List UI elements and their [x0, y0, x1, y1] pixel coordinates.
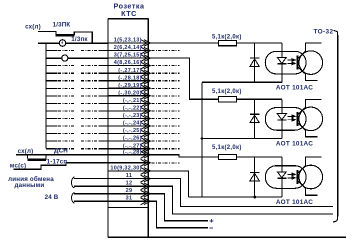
svg-text:1/3ПК: 1/3ПК [53, 22, 71, 29]
optocoupler U3 LED anode lead [281, 157, 283, 172]
wire bottom edge of connector extended (screen/common) [108, 236, 346, 238]
bracket for 24 В [72, 193, 75, 203]
wire row 13 from bus to connector (cable dash-dot) [46, 133, 108, 135]
svg-text:ДСН: ДСН [54, 148, 68, 155]
svg-text:(-,-,22): (-,-,22) [123, 106, 142, 112]
wire row 22 (24V-) L-run [148, 201, 208, 228]
svg-text:КТС: КТС [121, 9, 137, 18]
optocoupler U1 LED cathode lead [281, 64, 283, 83]
phototransistor VT3 circle [299, 165, 323, 189]
wire common return bus vertical [201, 82, 203, 197]
wire pin row 9 inside connector [108, 102, 148, 104]
pin 14 contact chevron [141, 138, 151, 145]
wire stub row 13 right of connector (dash-dot) [152, 133, 180, 135]
optocoupler U1 light arrows [287, 59, 295, 65]
phototransistor VT2 emitter [298, 123, 317, 136]
svg-text:3(7,25,15): 3(7,25,15) [114, 53, 142, 59]
wire feed channel 2 [148, 58, 218, 99]
phototransistor VT1 collector [298, 43, 321, 58]
svg-text:11: 11 [126, 173, 132, 179]
resistor R2 [218, 97, 236, 102]
indicator (lamp) HL2 on row 3 [62, 55, 68, 61]
wire pin row 20 inside connector [108, 185, 148, 187]
wire stub row 4 right of connector (dash-dot) [152, 65, 180, 67]
wire row 14 from bus to connector (cable dash-dot) [46, 140, 108, 142]
wire row 11 from bus to connector (cable dash-dot) [46, 118, 108, 120]
optocoupler U3 LED [277, 172, 286, 178]
svg-text:4(8,26,16): 4(8,26,16) [114, 60, 142, 66]
wire feed channel 1 [148, 42, 218, 44]
resistor R3 [218, 154, 236, 159]
svg-text:мс(с): мс(с) [10, 163, 27, 170]
wire pin row 15 inside connector [108, 148, 148, 150]
wire stub row 12 right of connector (dash-dot) [152, 125, 180, 127]
wire pin row 4 inside connector [108, 65, 148, 67]
wire stub row 14 right of connector (dash-dot) [152, 140, 180, 142]
pin 21 contact chevron [141, 190, 151, 197]
wire stub row 9 right of connector (dash-dot) [152, 102, 180, 104]
svg-text:12: 12 [126, 181, 133, 187]
wire pin row 18 inside connector [108, 170, 148, 172]
connector bottom separator line [108, 207, 148, 209]
wire pin row 2 inside connector [108, 50, 148, 52]
svg-text:10(9,32,30): 10(9,32,30) [110, 166, 141, 172]
svg-text:1-17сп: 1-17сп [47, 158, 68, 165]
svg-text:(-,-,24): (-,-,24) [123, 121, 142, 127]
pin 12 contact chevron [141, 123, 151, 130]
wire stub row 7 right of connector (dash-dot) [152, 87, 180, 89]
wire pin row 7 inside connector [108, 87, 148, 89]
svg-text:(-,-,26): (-,-,26) [123, 136, 142, 142]
wire pin row 11 inside connector [108, 118, 148, 120]
wire data line B to row 20 [74, 185, 108, 187]
optocoupler U3 light arrows [287, 173, 295, 179]
wire from R1 to optocoupler U1 [237, 42, 282, 44]
indicator (lamp) HL1 on row 1 [59, 40, 66, 47]
connector XS1 "Розетка КТС" box [108, 19, 148, 238]
polarity mark - [210, 227, 213, 229]
pin 3 contact chevron [141, 55, 151, 62]
switch 1-17сп contact bar [41, 164, 66, 166]
pin 15 contact chevron [141, 145, 151, 152]
wire row 19 (data) L-run [148, 179, 333, 207]
wire row 18 to channel 3 return [148, 171, 188, 197]
wire stub row 11 right of connector (dash-dot) [152, 118, 180, 120]
wire row 10 from bus to connector (cable dash-dot) [46, 110, 108, 112]
wire diode VD3 branch vertical [254, 157, 256, 197]
wire pin row 21 inside connector [108, 193, 148, 195]
svg-text:(-,27,17): (-,27,17) [118, 68, 142, 74]
wire pin row 3 inside connector [108, 57, 148, 59]
wire from R3 to optocoupler U3 [237, 156, 282, 158]
wire pin row 5 inside connector [108, 72, 148, 74]
wire row 1 from сх(л) area to connector [38, 42, 108, 44]
node tick at switch ДСН left riser [27, 155, 29, 159]
wire pin row 14 inside connector [108, 140, 148, 142]
svg-text:АОТ 101АС: АОТ 101АС [276, 84, 313, 91]
diode VD1 [250, 58, 259, 67]
diode VD2 [250, 114, 259, 122]
pin 4 contact chevron [141, 62, 151, 69]
phototransistor VT2 base bar [297, 112, 299, 126]
pin 1 contact chevron [141, 40, 151, 47]
junction node return bus / channel 2 [201, 137, 204, 140]
bracket for линия обмена данными [72, 177, 75, 188]
optocoupler U2 body [265, 108, 306, 131]
pin 17 contact chevron [141, 159, 151, 166]
wire 24V- to row 22 [74, 200, 108, 202]
wire from сх(л) through switch ДСН to row 16 [16, 154, 108, 156]
wire row 15 from bus to connector (cable dash-dot) [46, 148, 108, 150]
svg-text:(-,-,23): (-,-,23) [123, 113, 142, 119]
wire feed channel 3 [148, 155, 218, 157]
phototransistor VT3 collector [298, 157, 321, 173]
wire pin row 10 inside connector [108, 110, 148, 112]
wire pin row 6 inside connector [108, 80, 148, 82]
svg-text:(-,-,28): (-,-,28) [123, 149, 142, 155]
pin 9 contact chevron [141, 100, 151, 107]
wire row 20 (data) L-run [148, 186, 333, 214]
wire row 4 from bus to connector (cable dash-dot) [46, 65, 108, 67]
optocoupler U2 LED cathode lead [281, 120, 283, 139]
switch ДСН closed contact bar [28, 159, 47, 162]
pin 22 contact chevron [141, 198, 151, 205]
wire pin row 13 inside connector [108, 133, 148, 135]
wire from мс(с) (staircase) [13, 163, 108, 169]
phototransistor VT3 emitter [298, 181, 317, 195]
pin 5 contact chevron [141, 70, 151, 77]
pin 2 contact chevron [141, 47, 151, 54]
vertical bus wire on left side [45, 43, 47, 149]
wire return channel 1 [202, 81, 282, 83]
phototransistor VT3 base bar [297, 170, 299, 184]
wire stub row 10 right of connector (dash-dot) [152, 110, 180, 112]
phototransistor VT1 circle [299, 51, 323, 75]
svg-text:5,1к(2,0к): 5,1к(2,0к) [212, 34, 242, 40]
wire stub row 15 right of connector (dash-dot) [152, 148, 180, 150]
pin 13 contact chevron [141, 130, 151, 137]
svg-text:24 В: 24 В [45, 194, 59, 201]
wire data line A to row 19 [74, 178, 108, 180]
wire row 8 from bus to connector (cable dash-dot) [46, 95, 108, 97]
label линия обмена данными [8, 176, 54, 189]
phototransistor VT2 circle [299, 107, 323, 131]
optocoupler U1 LED anode lead [281, 43, 283, 57]
wire pin row 12 inside connector [108, 125, 148, 127]
wire row 21 (24V+) L-run [148, 194, 208, 221]
pin 8 contact chevron [141, 92, 151, 99]
wire return channel 3 [189, 196, 282, 198]
optocoupler U1 LED [277, 57, 286, 63]
wire diode VD1 branch vertical [254, 43, 256, 82]
resistor R1 [218, 40, 236, 45]
pin 20 contact chevron [141, 183, 151, 190]
optocoupler U1 body [265, 51, 306, 74]
svg-text:1(5,23,13): 1(5,23,13) [114, 38, 142, 44]
wire pin row 22 inside connector [108, 200, 148, 202]
svg-text:5,1к(2,0к): 5,1к(2,0к) [212, 145, 242, 151]
svg-text:31: 31 [126, 196, 133, 202]
wire diode VD2 branch vertical [254, 99, 256, 138]
wire row 2 from bus to connector (cable dash-dot) [46, 50, 108, 52]
wire pin row 16 inside connector [108, 154, 148, 156]
svg-text:(-,-,21): (-,-,21) [123, 98, 142, 104]
wire stub row 5 right of connector (dash-dot) [152, 72, 180, 74]
diode VD3 [250, 172, 259, 180]
terminal group bracket ТО-32 [333, 31, 338, 222]
wire stub row 8 right of connector (dash-dot) [152, 95, 180, 97]
wire from R2 to optocoupler U2 [237, 98, 282, 100]
svg-text:сх(л): сх(л) [18, 148, 34, 155]
pin 11 contact chevron [141, 115, 151, 122]
svg-text:АОТ 101АС: АОТ 101АС [276, 199, 313, 206]
wire stub row 6 right of connector (dash-dot) [152, 80, 180, 82]
optocoupler U2 LED [277, 114, 286, 120]
svg-text:2(6,24,14): 2(6,24,14) [114, 45, 142, 51]
wire row 5 from bus to connector (cable dash-dot) [46, 72, 108, 74]
wire pin row 1 inside connector [108, 42, 148, 44]
connector label Розетка КТС [114, 1, 145, 18]
svg-text:данными: данными [15, 182, 45, 189]
svg-text:ТО-32: ТО-32 [314, 28, 334, 35]
pin 16 contact chevron [141, 151, 151, 158]
wire pin row 19 inside connector [108, 178, 148, 180]
pin 10 contact chevron [141, 107, 151, 114]
wire row 3 from bus to connector [46, 57, 108, 59]
wire row 7 from bus to connector (cable dash-dot) [46, 87, 108, 89]
optocoupler U2 light arrows [287, 115, 295, 121]
pin 6 contact chevron [141, 77, 151, 84]
wire stub row 17 right of connector (dash-dot) [152, 162, 180, 164]
phototransistor VT1 emitter [298, 67, 317, 81]
junction node diode VD3 / return [253, 196, 256, 199]
optocoupler U3 LED cathode lead [281, 178, 283, 197]
switch 1/3ПК closed contact bar [56, 34, 75, 37]
wire return channel 2 [202, 138, 282, 140]
svg-text:(-,-,25): (-,-,25) [123, 128, 142, 134]
wire 24V+ to row 21 [74, 193, 108, 195]
wire row 9 from bus to connector (cable dash-dot) [46, 102, 108, 104]
optocoupler U2 LED anode lead [281, 99, 283, 113]
svg-text:сх(л): сх(л) [25, 23, 41, 30]
svg-text:(-,-,27): (-,-,27) [123, 143, 142, 149]
wire pin row 8 inside connector [108, 95, 148, 97]
svg-text:АОТ 101АС: АОТ 101АС [276, 141, 313, 148]
svg-text:(-,29,19): (-,29,19) [118, 83, 142, 89]
wire from сх(л) to switch 1/3ПК [38, 32, 56, 35]
pin 7 contact chevron [141, 85, 151, 92]
pin 19 contact chevron [141, 175, 151, 182]
polarity mark + [210, 219, 214, 223]
svg-text:(-,28,18): (-,28,18) [118, 75, 142, 81]
svg-text:29: 29 [126, 188, 133, 194]
wire from switch to row 1 [74, 32, 92, 43]
wire row 6 from bus to connector (cable dash-dot) [46, 80, 108, 82]
wire stub row 2 right of connector (dash-dot) [152, 50, 180, 52]
svg-text:(-,30,20): (-,30,20) [118, 90, 142, 96]
optocoupler U3 body [265, 166, 306, 189]
phototransistor VT2 collector [298, 99, 321, 114]
wire row 12 from bus to connector (cable dash-dot) [46, 125, 108, 127]
wire pin row 17 inside connector [108, 162, 148, 164]
riser from ДСН bar to wire [45, 155, 47, 160]
pin 18 contact chevron [141, 167, 151, 174]
phototransistor VT1 base bar [297, 56, 299, 70]
svg-text:1/3пк: 1/3пк [71, 36, 88, 43]
svg-text:5,1к(2,0к): 5,1к(2,0к) [212, 89, 242, 95]
